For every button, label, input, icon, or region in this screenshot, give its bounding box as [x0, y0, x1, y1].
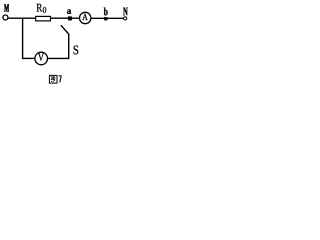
- caption hanzi "tu" (figure) outer box: [49, 75, 57, 83]
- node a (solid dot): [68, 16, 72, 20]
- label V of voltmeter: [38, 54, 44, 61]
- label R of R0: [37, 4, 43, 12]
- voltmeter V (circle): [35, 52, 48, 65]
- wire bottom rail left of voltmeter: [22, 57, 35, 59]
- wire top rail: resistor R0 to node a and ammeter: [51, 17, 80, 19]
- wire bottom rail right of voltmeter: [47, 57, 69, 59]
- wire top rail: terminal M to resistor R0: [8, 17, 36, 19]
- label A of ammeter: [82, 14, 87, 20]
- label b: [104, 8, 108, 16]
- terminal N (open circle): [124, 17, 127, 20]
- label N: [123, 8, 128, 16]
- wire right vertical up to switch: [68, 34, 70, 59]
- wire top rail: ammeter to node b and terminal N: [91, 17, 123, 19]
- wire left vertical branch: [22, 18, 24, 59]
- terminal M (open circle): [3, 15, 8, 20]
- label S: [74, 46, 79, 55]
- label 0 subscript of R0: [43, 7, 46, 13]
- caption digit 7: [59, 75, 62, 82]
- switch S blade (open): [61, 25, 69, 34]
- resistor R0 (box): [36, 16, 51, 21]
- caption hanzi "tu" inner strokes: [51, 77, 55, 82]
- node b (solid dot): [104, 17, 107, 20]
- label M: [4, 4, 9, 11]
- ammeter A (circle): [80, 12, 91, 23]
- label a: [67, 9, 71, 14]
